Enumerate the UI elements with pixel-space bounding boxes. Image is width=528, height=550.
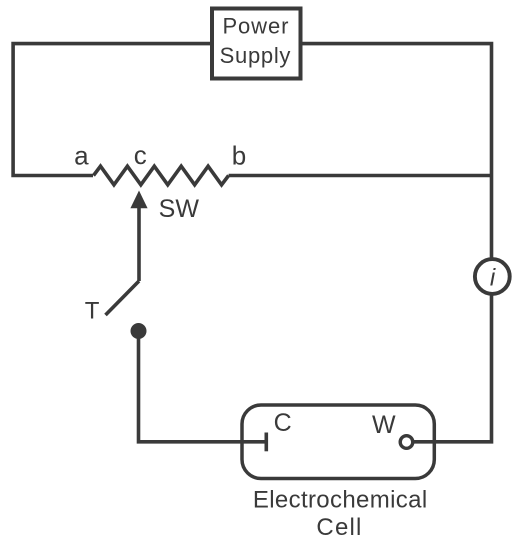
svg-text:Cell: Cell bbox=[316, 514, 362, 541]
svg-text:SW: SW bbox=[159, 195, 200, 223]
svg-text:Power: Power bbox=[222, 14, 289, 39]
svg-text:i: i bbox=[490, 265, 496, 292]
svg-text:Electrochemical: Electrochemical bbox=[253, 486, 428, 513]
cell terminal circle W bbox=[400, 436, 413, 449]
wire: outer loop (left vertical, top, right vertical, bottom-right to cell) bbox=[13, 44, 491, 442]
svg-text:c: c bbox=[134, 140, 147, 170]
resistor a-b with tap c bbox=[94, 166, 229, 185]
svg-text:W: W bbox=[372, 411, 396, 439]
electrochemical cell body bbox=[242, 405, 434, 479]
svg-text:b: b bbox=[232, 141, 246, 171]
svg-text:C: C bbox=[274, 409, 292, 437]
wiper arrowhead bbox=[130, 191, 147, 209]
ammeter i bbox=[475, 259, 510, 294]
switch contact node dot bbox=[131, 323, 147, 339]
wire: switch dot down and right to cell electrode bbox=[139, 331, 265, 442]
svg-text:T: T bbox=[85, 298, 100, 325]
wiper arrow shaft SW bbox=[137, 208, 141, 281]
power supply box bbox=[212, 9, 301, 79]
svg-text:a: a bbox=[74, 141, 89, 171]
cell electrode bar C bbox=[264, 433, 268, 452]
svg-text:Supply: Supply bbox=[220, 43, 291, 68]
wire: resistor b to right vertical bbox=[229, 174, 492, 178]
switch blade T bbox=[106, 281, 140, 315]
